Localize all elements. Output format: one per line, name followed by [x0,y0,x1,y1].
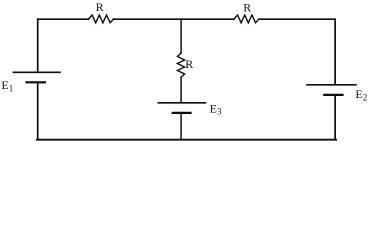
wire right lower [334,96,336,140]
wire middle mid [180,77,182,102]
wire bottom [37,139,336,141]
wire top middle segment [113,18,233,20]
wire middle upper [180,19,182,53]
svg-text:R: R [243,0,251,14]
resistor R1 [88,15,113,23]
svg-text:R: R [185,57,193,71]
battery E3 [158,103,205,113]
wire top right segment [259,18,335,20]
wire right upper [334,19,336,84]
wire top left segment [38,18,89,20]
wire left upper [37,19,39,71]
wire middle lower [180,114,182,140]
wire left lower [37,83,39,139]
svg-text:R: R [96,0,104,14]
battery E1 [14,72,61,82]
battery E2 [307,85,356,95]
resistor R2 [234,15,259,23]
svg-text:E1: E1 [1,78,13,93]
svg-text:E2: E2 [355,87,367,102]
resistor R3 (middle vertical) [177,53,184,77]
svg-text:E3: E3 [210,101,222,116]
